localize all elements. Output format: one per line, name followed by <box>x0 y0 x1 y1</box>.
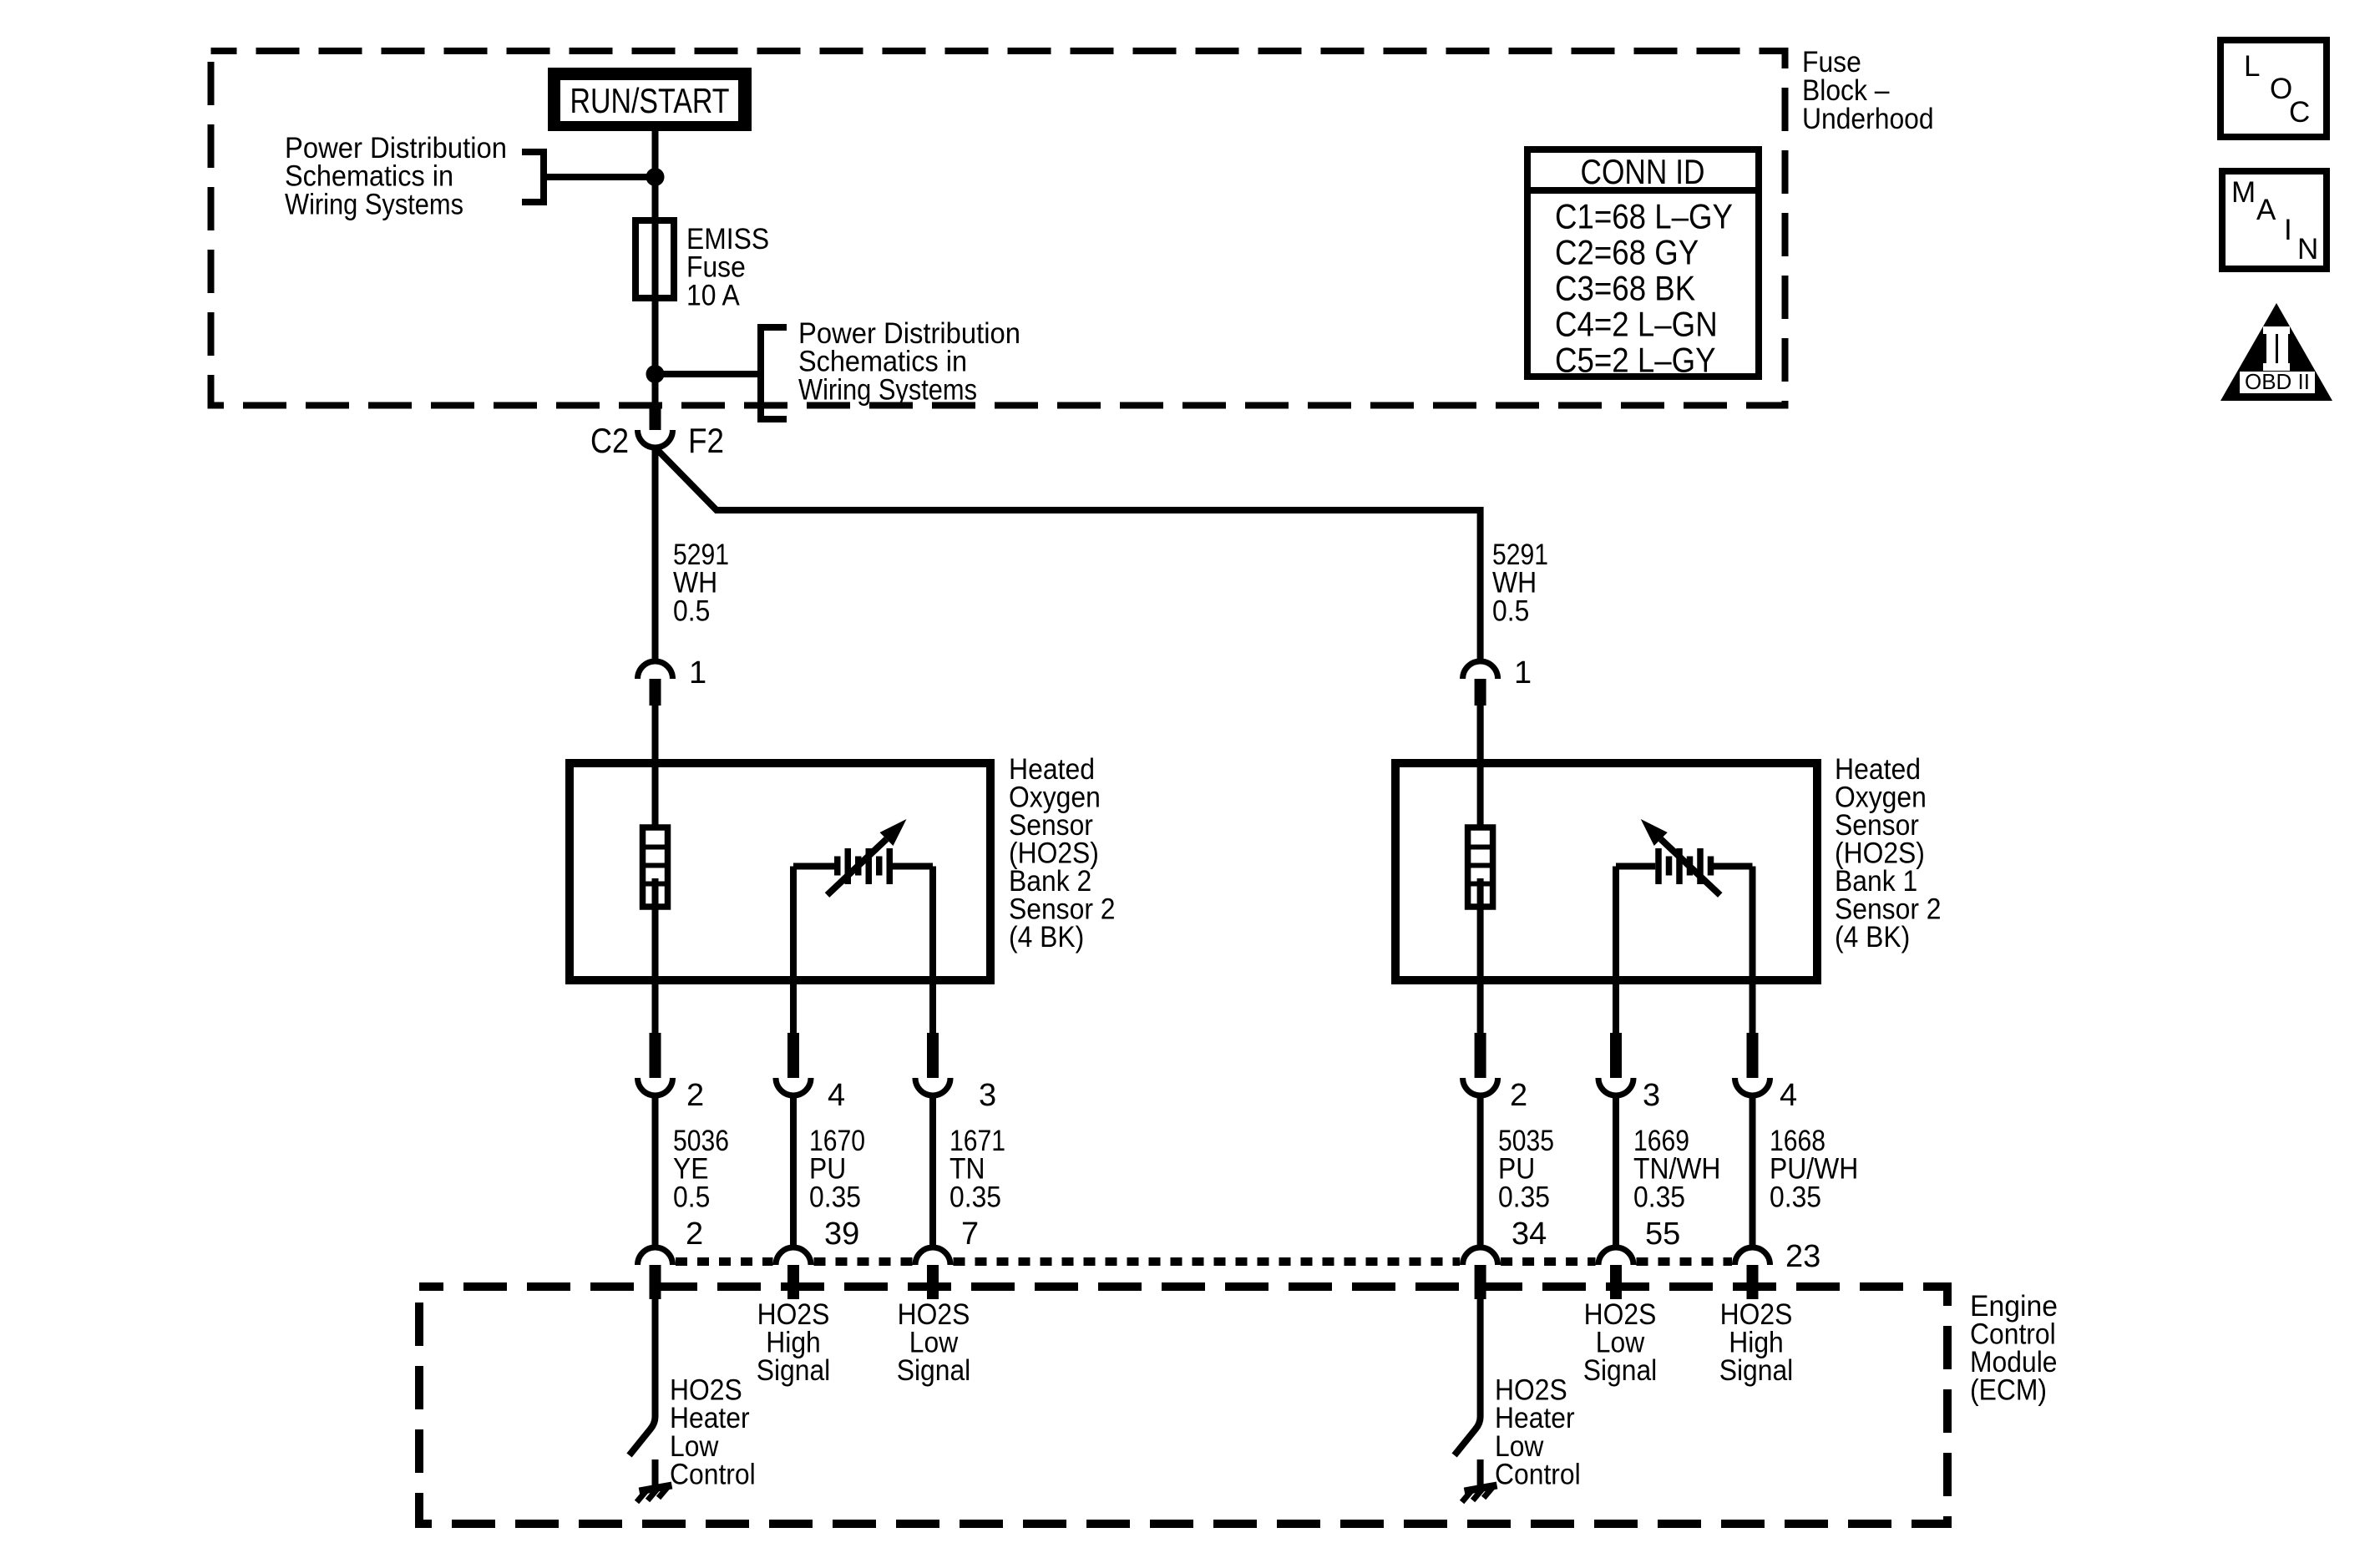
svg-text:0.35: 0.35 <box>1770 1181 1821 1213</box>
svg-text:CONN ID: CONN ID <box>1581 152 1705 191</box>
svg-text:C3=68 BK: C3=68 BK <box>1555 269 1695 308</box>
svg-text:(4 BK): (4 BK) <box>1835 921 1910 954</box>
svg-text:Control: Control <box>1495 1459 1581 1491</box>
svg-text:C5=2 L–GY: C5=2 L–GY <box>1555 340 1716 379</box>
svg-text:N: N <box>2297 233 2318 266</box>
svg-text:0.5: 0.5 <box>673 594 710 627</box>
svg-text:OBD II: OBD II <box>2245 369 2310 394</box>
svg-text:0.35: 0.35 <box>809 1181 861 1213</box>
svg-text:RUN/START: RUN/START <box>570 81 730 120</box>
svg-text:L: L <box>2244 50 2260 83</box>
svg-text:4: 4 <box>828 1078 845 1113</box>
svg-text:2: 2 <box>1510 1078 1527 1113</box>
svg-text:A: A <box>2256 194 2276 226</box>
svg-text:F2: F2 <box>688 421 724 460</box>
svg-text:7: 7 <box>961 1217 979 1252</box>
svg-text:23: 23 <box>1785 1239 1820 1274</box>
svg-text:C1=68 L–GY: C1=68 L–GY <box>1555 197 1733 236</box>
svg-text:Signal: Signal <box>1583 1354 1658 1387</box>
svg-text:0.5: 0.5 <box>1492 594 1529 627</box>
svg-text:M: M <box>2231 176 2256 209</box>
svg-text:2: 2 <box>686 1078 704 1113</box>
svg-text:4: 4 <box>1780 1078 1797 1113</box>
svg-text:1: 1 <box>1514 655 1532 690</box>
svg-text:C2: C2 <box>590 421 629 460</box>
svg-text:Signal: Signal <box>757 1354 831 1387</box>
svg-text:0.35: 0.35 <box>1498 1181 1550 1213</box>
svg-text:55: 55 <box>1645 1217 1680 1252</box>
svg-text:Wiring Systems: Wiring Systems <box>798 373 977 406</box>
svg-text:0.35: 0.35 <box>1633 1181 1685 1213</box>
svg-text:3: 3 <box>979 1078 996 1113</box>
svg-text:Underhood: Underhood <box>1802 103 1934 135</box>
svg-text:(4 BK): (4 BK) <box>1009 921 1084 954</box>
svg-text:I: I <box>2284 214 2292 246</box>
svg-text:1: 1 <box>689 655 706 690</box>
svg-text:Signal: Signal <box>897 1354 971 1387</box>
svg-text:C4=2 L–GN: C4=2 L–GN <box>1555 304 1718 343</box>
svg-text:(ECM): (ECM) <box>1970 1374 2047 1407</box>
svg-text:34: 34 <box>1512 1217 1547 1252</box>
svg-text:3: 3 <box>1643 1078 1660 1113</box>
svg-text:0.35: 0.35 <box>949 1181 1001 1213</box>
svg-text:39: 39 <box>824 1217 859 1252</box>
svg-text:0.5: 0.5 <box>673 1181 710 1213</box>
svg-text:C: C <box>2289 96 2310 129</box>
svg-text:2: 2 <box>686 1217 703 1252</box>
svg-text:Wiring Systems: Wiring Systems <box>285 188 463 220</box>
svg-text:Control: Control <box>670 1459 756 1491</box>
svg-text:10 A: 10 A <box>686 279 740 311</box>
svg-text:Signal: Signal <box>1719 1354 1794 1387</box>
svg-text:C2=68 GY: C2=68 GY <box>1555 233 1699 272</box>
